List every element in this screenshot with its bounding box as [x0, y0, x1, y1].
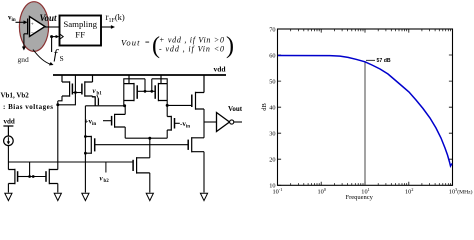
transistor M2 [75, 81, 92, 96]
y tick labels [269, 26, 275, 189]
svg-text:b2: b2 [104, 179, 110, 184]
svg-text:20: 20 [269, 157, 275, 164]
node left summing dot [123, 104, 126, 107]
node -vin label [180, 120, 190, 130]
wire M9 source to ground [57, 184, 59, 193]
svg-text:40: 40 [269, 105, 275, 112]
ground symbol 3 [82, 193, 89, 200]
wire Min- source [166, 130, 168, 138]
label vdd supply left [4, 118, 15, 126]
wire cross left vertical [124, 79, 145, 106]
wire M5 rail vert [160, 75, 162, 84]
svg-text:vdd: vdd [214, 65, 227, 74]
gain curve [278, 56, 452, 167]
wire cross gate bridge [144, 90, 154, 93]
svg-text:57 dB: 57 dB [377, 58, 391, 64]
x-axis minor ticks [291, 29, 451, 185]
transistor M10 tail [133, 157, 150, 174]
wire tail node [125, 137, 167, 140]
node Vout label [40, 13, 58, 23]
wire I1 to M8 [7, 146, 9, 170]
x axis label Frequency [346, 194, 374, 201]
wire M1 source to rail [61, 75, 63, 82]
svg-text:30: 30 [269, 131, 275, 138]
wire M1 drain to bias [58, 96, 62, 101]
wire M7 rail vert [203, 75, 205, 93]
wire bias vertical [57, 101, 59, 170]
wire Min+ drain [124, 106, 126, 115]
svg-text:=: = [145, 38, 150, 47]
transistor Min- [167, 116, 180, 131]
transistor M1 [62, 81, 75, 96]
svg-text:FF: FF [75, 30, 85, 40]
node vb1 label [93, 87, 103, 98]
wire inverting input [24, 33, 28, 35]
wire M7 to M11 vertical [203, 109, 205, 138]
wire cascode gate line [95, 144, 189, 146]
57 dB annotation [366, 58, 391, 64]
svg-text:: Bias voltages: : Bias voltages [3, 103, 53, 111]
transistor M9 [46, 169, 58, 184]
node vin label [8, 14, 16, 24]
marker vertical line at 10 MHz [364, 62, 366, 185]
wire left column down [84, 106, 86, 193]
ground symbol 1 [5, 193, 12, 200]
wire inverter input [204, 121, 217, 123]
wire M11 source [203, 152, 205, 193]
svg-text:Vout: Vout [228, 105, 243, 113]
ground symbol 4 [146, 193, 153, 200]
wire M10 source [149, 173, 151, 193]
wire M8 source to ground [7, 184, 9, 193]
op-amp U1 comparator [28, 17, 45, 37]
axis major ticks [278, 29, 453, 185]
transistor M8 diode [8, 169, 29, 184]
svg-text:Vout: Vout [40, 13, 58, 23]
label Vb1 Vb2 bias voltages [1, 92, 54, 111]
wire vin input arrow [16, 20, 28, 24]
transistor Mmid [85, 136, 94, 154]
wire M10 drain [149, 138, 151, 158]
annotation arrow from ellipse to schematic [33, 50, 54, 66]
wire to gnd [22, 34, 26, 51]
wire mirror gate tap [28, 162, 46, 178]
power tap T bar [3, 126, 13, 136]
node bias junction dot [56, 103, 59, 106]
svg-text:vdd: vdd [4, 118, 15, 126]
node vb2 label [100, 162, 110, 184]
node fS label [54, 47, 64, 64]
current source I1 [4, 136, 14, 146]
wire inverter output [234, 121, 242, 123]
node vdd rail label [214, 65, 227, 74]
wire fS [51, 37, 53, 52]
svg-text:Vout: Vout [121, 38, 140, 48]
wire FF output arrow [101, 25, 115, 29]
wire vdd rail [53, 74, 226, 76]
svg-text:−: − [31, 30, 34, 36]
svg-text:): ) [226, 33, 234, 59]
node right summing dot [166, 104, 169, 107]
svg-text:Frequency: Frequency [346, 194, 374, 201]
svg-text:- vdd , if Vin <0: - vdd , if Vin <0 [159, 45, 224, 54]
wire M2 source to rail [92, 75, 94, 82]
transistor M3 cascode [93, 96, 99, 106]
transistor Min+ [103, 114, 125, 128]
node Vout schematic label [228, 105, 243, 113]
wire comparator output [45, 26, 60, 28]
svg-text:Sampling: Sampling [63, 19, 97, 29]
wire Min- drain [166, 105, 168, 116]
svg-text:60: 60 [269, 52, 275, 59]
svg-text:gnd: gnd [18, 55, 30, 64]
wire Vb2 distribution line [8, 161, 133, 163]
transistor M5 cross pair right [152, 83, 167, 101]
svg-text:S: S [60, 54, 64, 63]
Sampling FF block U2 [60, 16, 102, 46]
transistor M4 cross pair left [124, 83, 145, 101]
node r1F(k) label [106, 12, 125, 24]
x tick labels [273, 187, 473, 196]
plot frame [278, 29, 453, 185]
node Mmid dots [84, 135, 87, 155]
wire M3 source bus [85, 105, 124, 107]
wire cross right vertical [152, 79, 167, 106]
ground label [18, 55, 30, 64]
svg-text:dB: dB [261, 103, 268, 111]
equation Vout definition [121, 33, 234, 59]
transistor M11 [188, 137, 204, 152]
svg-text:Vb1, Vb2: Vb1, Vb2 [1, 92, 30, 100]
wire gate bias node [58, 75, 77, 105]
wire Min+ source [124, 127, 126, 138]
node +vin label [85, 117, 97, 127]
y axis label dB [261, 103, 268, 111]
transistor M7 [167, 92, 204, 110]
ellipse highlight around comparator [19, 2, 48, 52]
wire M4 rail vert [128, 75, 130, 84]
svg-text:50: 50 [269, 78, 275, 85]
ground symbol 2 [54, 193, 61, 200]
svg-text:70: 70 [269, 26, 275, 33]
svg-text:+ vdd , if Vin >0: + vdd , if Vin >0 [159, 36, 224, 45]
ground symbol 5 [200, 193, 207, 200]
svg-text:+: + [31, 21, 34, 27]
wire clock into FF [50, 35, 59, 38]
inverter U3 [217, 113, 234, 132]
